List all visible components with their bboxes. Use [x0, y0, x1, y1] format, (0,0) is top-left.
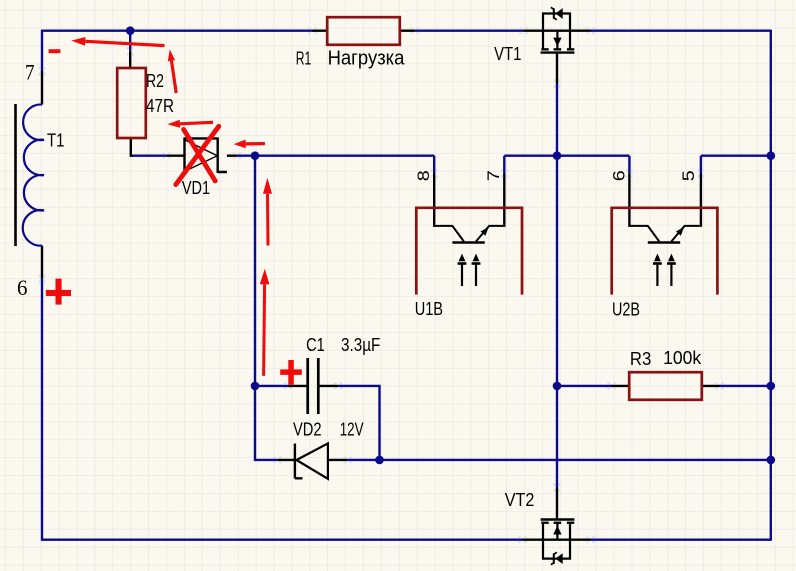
wire node A vertical	[254, 156, 256, 386]
wire T1 top pin	[41, 71, 43, 105]
annotation arrow left above VD1	[167, 120, 213, 128]
junction node gate-bus	[553, 151, 562, 160]
wire top rail middle segment	[415, 30, 524, 32]
annotation arrow up (lower)	[260, 269, 270, 376]
svg-text:R1: R1	[296, 49, 312, 69]
junction node right-3	[767, 456, 776, 465]
wire C1 right pin	[319, 385, 338, 387]
svg-text:12V: 12V	[340, 420, 364, 440]
wire pin5 to right rail	[701, 154, 771, 156]
wire U1B pin8 lead	[433, 174, 435, 227]
wire left vertical upper	[41, 30, 43, 71]
svg-text:5: 5	[679, 170, 698, 181]
optocoupler U1B outline	[416, 208, 522, 295]
wire U2B pin5 lead	[700, 174, 702, 227]
wire T1 bottom pin	[41, 246, 43, 279]
wire U1B pin8 drop	[433, 156, 435, 174]
wire R3 row left	[557, 385, 612, 387]
wire VT1 drain-source rail	[524, 30, 591, 32]
wire VD1 row left	[130, 154, 166, 156]
annotation arrow up (upper)	[263, 178, 272, 246]
wire node down to VD2 row	[255, 385, 277, 460]
transformer T1 winding	[23, 104, 44, 245]
svg-text:VD2: VD2	[293, 420, 322, 440]
optocoupler U2B phototransistor	[630, 226, 700, 243]
annotation arrow left at node A	[234, 140, 265, 149]
wire U2B pin6 drop	[628, 156, 630, 174]
svg-text:47R: 47R	[146, 96, 174, 116]
wire R3 row right	[720, 385, 771, 387]
wire bottom rail left segment	[42, 539, 523, 541]
wire left vertical lower	[41, 279, 43, 541]
annotation plus at terminal 6	[46, 279, 71, 305]
wire U2B pin6 lead	[628, 174, 630, 227]
resistor R3	[629, 372, 702, 400]
svg-text:R3: R3	[630, 349, 651, 369]
annotation arrow up beside R2	[168, 49, 176, 93]
wire R3 right pin	[702, 385, 720, 387]
svg-text:6: 6	[610, 170, 629, 181]
svg-text:6: 6	[17, 275, 28, 300]
wire VD1 right pin	[227, 154, 237, 156]
junction node A	[251, 151, 260, 160]
wire VT1 gate stub	[556, 53, 558, 84]
wire VD2 right pin	[328, 459, 348, 461]
junction node C1-left	[251, 382, 260, 391]
wire U1B pin7 lead	[503, 174, 505, 227]
transistor VT1 (MOSFET with body diode)	[541, 7, 575, 52]
svg-text:C1: C1	[306, 335, 325, 355]
resistor R1	[327, 17, 400, 45]
wire VD2 left pin	[277, 459, 295, 461]
wire U1B pin7 drop	[503, 156, 505, 174]
wire middle vertical gate bus	[556, 156, 558, 488]
wire R2 top stub	[129, 31, 131, 52]
wire gate node to U2B pin6	[557, 154, 629, 156]
junction node R2-top	[126, 26, 135, 35]
optocoupler U1B light arrows	[458, 254, 467, 286]
wire R1 right pin	[400, 30, 415, 32]
transformer T1 core	[14, 104, 17, 246]
svg-text:Нагрузка: Нагрузка	[328, 48, 406, 70]
svg-text:T1: T1	[47, 131, 65, 151]
svg-text:R2: R2	[146, 71, 164, 91]
wire VD1 row to node A	[237, 154, 434, 156]
optocoupler U2B light arrows	[653, 254, 662, 286]
annotation minus sign	[49, 49, 61, 53]
wire VD1 left pin	[167, 154, 185, 156]
junction node VD2-right	[375, 456, 384, 465]
wire C1 left pin	[288, 385, 307, 387]
annotation plus at C1	[280, 360, 302, 385]
resistor R2	[117, 68, 146, 138]
wire C1 right jog	[338, 386, 379, 460]
svg-text:7: 7	[25, 60, 35, 85]
svg-text:U1B: U1B	[415, 299, 443, 319]
diode VD1	[185, 138, 227, 174]
wire U2B pin5 drop	[700, 156, 702, 174]
wire R2 bottom pin	[130, 138, 133, 157]
annotation arrow to minus terminal	[71, 37, 164, 46]
svg-text:100k: 100k	[663, 348, 702, 368]
wire bottom rail right segment	[591, 539, 771, 541]
transistor VT2 (MOSFET with body diode)	[541, 520, 575, 565]
svg-text:7: 7	[484, 170, 503, 181]
wire top rail left segment	[42, 30, 313, 32]
svg-text:3.3µF: 3.3µF	[341, 335, 380, 355]
wire top rail right segment	[591, 30, 771, 32]
junction node right-1	[767, 151, 776, 160]
wire pin7 to gate node	[504, 154, 557, 156]
wire node to C1 left	[255, 385, 288, 387]
wire right vertical	[770, 30, 772, 541]
wire R3 left pin	[612, 385, 630, 387]
svg-text:8: 8	[414, 170, 433, 181]
wire VD2 row right	[348, 459, 771, 461]
svg-text:VT1: VT1	[494, 44, 521, 64]
capacitor C1	[308, 358, 319, 414]
junction node right-2	[767, 382, 776, 391]
junction node R3-left	[553, 382, 562, 391]
wire VT2 gate stub	[556, 488, 558, 520]
pin markers (light blue)	[39, 27, 724, 543]
svg-text:VD1: VD1	[182, 178, 210, 198]
annotation X cross over VD1	[176, 126, 219, 184]
wire R2 top pin	[129, 51, 131, 68]
optocoupler U2B outline	[612, 208, 718, 295]
svg-text:VT2: VT2	[505, 490, 535, 510]
zener diode VD2	[295, 443, 328, 478]
optocoupler U1B phototransistor	[434, 226, 504, 243]
svg-text:U2B: U2B	[612, 300, 640, 320]
wire R1 left pin	[313, 30, 328, 32]
wire VT2 drain-source rail	[523, 539, 591, 541]
wire VT1 gate lead	[556, 84, 558, 156]
